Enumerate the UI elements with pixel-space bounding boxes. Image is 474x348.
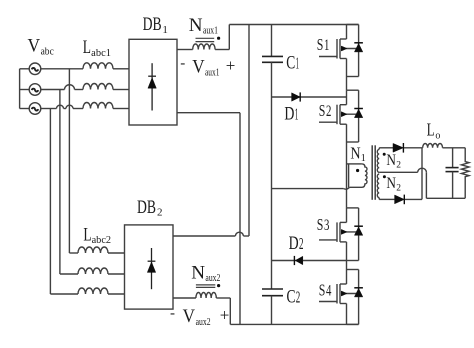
transistor S4 bbox=[319, 270, 359, 325]
svg-text:D: D bbox=[289, 233, 299, 254]
svg-text:V: V bbox=[183, 306, 196, 327]
svg-text:C: C bbox=[286, 52, 295, 73]
wire row-b2 bbox=[60, 273, 125, 275]
wire center tap bbox=[379, 171, 418, 173]
transistor S3 bbox=[319, 208, 359, 261]
capacitor C2 bbox=[262, 289, 283, 296]
inductor L_c2 bbox=[78, 288, 108, 294]
AC source Va bbox=[29, 63, 41, 75]
diode D1 bbox=[292, 92, 301, 101]
wire top rail bbox=[229, 24, 358, 26]
wire C1 top lead bbox=[271, 25, 273, 57]
wire C2 bottom lead bbox=[271, 296, 273, 325]
svg-text:1: 1 bbox=[295, 104, 299, 123]
AC source Vc bbox=[29, 103, 41, 115]
capacitor Co bbox=[446, 148, 459, 199]
svg-text:o: o bbox=[435, 131, 440, 142]
wire DB2+ right bbox=[173, 235, 249, 237]
label L_abc2 bbox=[83, 225, 111, 247]
wire Lo to load bbox=[443, 147, 466, 149]
wire D2 line bbox=[272, 260, 347, 262]
label N1 bbox=[350, 143, 365, 164]
svg-text:2: 2 bbox=[157, 207, 163, 219]
wire DB1- right bbox=[177, 112, 240, 114]
wire row-c2 bbox=[50, 293, 124, 295]
wire D1 line bbox=[272, 96, 347, 98]
svg-text:abc: abc bbox=[41, 47, 55, 58]
svg-text:abc1: abc1 bbox=[91, 48, 111, 59]
svg-text:3: 3 bbox=[324, 217, 329, 234]
svg-text:aux1: aux1 bbox=[203, 26, 218, 37]
diode symbol in DB2 bbox=[147, 248, 155, 289]
svg-text:N: N bbox=[191, 262, 205, 283]
svg-text:DB: DB bbox=[137, 197, 156, 218]
label S2 bbox=[319, 101, 332, 120]
inductor L_a2 bbox=[78, 247, 108, 253]
svg-text:S: S bbox=[317, 35, 324, 54]
svg-text:1: 1 bbox=[361, 153, 366, 164]
svg-text:-: - bbox=[180, 56, 185, 72]
inductor Lo bbox=[423, 144, 443, 148]
svg-text:aux2: aux2 bbox=[196, 317, 211, 328]
label C2 bbox=[287, 286, 301, 307]
svg-text:2: 2 bbox=[296, 287, 301, 306]
wire tap phase-c down bbox=[49, 109, 51, 295]
capacitor C1 bbox=[262, 56, 283, 62]
svg-text:N: N bbox=[189, 15, 203, 36]
wire DB1- down to bottom rail bbox=[239, 113, 241, 325]
svg-text:aux1: aux1 bbox=[205, 67, 220, 78]
svg-text:S: S bbox=[319, 281, 326, 300]
label D1 bbox=[284, 103, 298, 124]
polarity dot N2 bottom bbox=[383, 175, 386, 178]
label DB2 bbox=[137, 197, 163, 219]
label N_aux1 bbox=[189, 15, 218, 37]
svg-text:C: C bbox=[287, 286, 296, 307]
body diode S1 bbox=[354, 25, 363, 77]
wire S3-S4 link bbox=[346, 261, 348, 270]
inductor L_b2 bbox=[78, 268, 108, 274]
wire DB2+ up to top rail bbox=[248, 25, 250, 237]
label N_aux2 bbox=[191, 262, 220, 284]
body diode S2 bbox=[354, 90, 363, 142]
wire bottom diode up leg bbox=[421, 148, 423, 200]
polarity dot N_aux1 bbox=[217, 37, 220, 40]
svg-text:2: 2 bbox=[396, 161, 401, 171]
winding N1 primary bbox=[349, 164, 367, 187]
wire secondary top line bbox=[379, 147, 423, 149]
inductor L_b1 bbox=[83, 84, 113, 90]
svg-text:L: L bbox=[427, 120, 435, 140]
svg-text:1: 1 bbox=[296, 53, 299, 72]
svg-text:aux2: aux2 bbox=[205, 273, 220, 284]
label S1 bbox=[317, 35, 330, 54]
wire Naux2 to bottom rail bbox=[216, 298, 230, 324]
label DB1 bbox=[143, 14, 168, 36]
svg-text:-: - bbox=[170, 306, 175, 322]
label N2 bottom bbox=[386, 175, 401, 193]
inductor N_aux2 winding bbox=[196, 293, 216, 299]
wire hop phase-b over tap-a bbox=[65, 85, 75, 90]
label S3 bbox=[317, 215, 330, 234]
diode bridge DB1 box bbox=[129, 39, 177, 125]
body diode S3 bbox=[354, 208, 363, 261]
wire midpoint bus bbox=[271, 62, 273, 289]
core bars N_aux2 bbox=[196, 285, 215, 288]
svg-text:DB: DB bbox=[143, 14, 162, 35]
polarity dot N1 bbox=[356, 169, 359, 172]
wire hop center-tap over diode leg bbox=[418, 168, 427, 172]
wire left bus bbox=[20, 69, 30, 109]
AC source Vb bbox=[29, 84, 41, 96]
wire S2-S3 link bbox=[346, 142, 348, 208]
wire phase-b row bbox=[41, 89, 129, 91]
label S4 bbox=[319, 281, 332, 300]
label - V_aux1 + bbox=[180, 56, 235, 79]
polarity dot N_aux2 bbox=[217, 284, 220, 287]
wire row-a2 bbox=[69, 252, 124, 254]
svg-text:V: V bbox=[28, 35, 41, 56]
wire DB1+ to Naux1 bbox=[177, 49, 193, 51]
svg-text:+: + bbox=[220, 305, 230, 324]
inductor L_a1 bbox=[83, 63, 113, 69]
wire tap phase-b down bbox=[59, 90, 61, 275]
svg-text:S: S bbox=[319, 101, 326, 120]
core bars N_aux1 bbox=[196, 38, 215, 41]
body diode S4 bbox=[354, 270, 363, 325]
svg-text:2: 2 bbox=[396, 183, 401, 193]
svg-text:+: + bbox=[226, 56, 236, 75]
svg-text:L: L bbox=[83, 37, 91, 58]
wire bottom rail bbox=[230, 323, 358, 325]
svg-text:D: D bbox=[284, 103, 294, 124]
wire S1-S2 link bbox=[346, 77, 348, 91]
svg-text:N: N bbox=[350, 143, 360, 162]
inductor N_aux1 winding bbox=[193, 44, 215, 50]
label D2 bbox=[289, 233, 304, 254]
label Lo bbox=[427, 120, 441, 142]
resistor load R bbox=[461, 148, 469, 199]
wire phase-a row bbox=[41, 68, 129, 70]
transformer core bbox=[372, 145, 375, 200]
svg-text:2: 2 bbox=[326, 103, 331, 120]
svg-text:N: N bbox=[386, 152, 396, 169]
wire Naux1 to top rail bbox=[215, 25, 229, 50]
diode D2 bbox=[294, 256, 302, 265]
wire tap phase-a down bbox=[68, 69, 70, 253]
wire center tap down bbox=[426, 172, 465, 198]
winding N2 bottom bbox=[377, 174, 379, 199]
wire DB2- to Naux2 bbox=[173, 297, 196, 299]
svg-text:2: 2 bbox=[299, 234, 304, 253]
inductor L_c1 bbox=[83, 103, 113, 109]
wire hop phase-c over tap-b bbox=[57, 105, 64, 108]
label C1 bbox=[286, 52, 299, 73]
rectifier diode top bbox=[393, 143, 403, 153]
diode symbol in DB1 bbox=[148, 63, 156, 110]
label V_abc bbox=[28, 35, 55, 57]
winding N2 top bbox=[377, 148, 379, 173]
wire primary bottom lead bbox=[272, 187, 350, 189]
label - V_aux2 + bbox=[170, 305, 229, 328]
svg-text:V: V bbox=[192, 57, 205, 78]
wire phase-c row bbox=[41, 108, 129, 110]
wire secondary bottom line bbox=[379, 198, 422, 200]
svg-text:S: S bbox=[317, 215, 324, 234]
transistor S2 bbox=[319, 90, 359, 142]
svg-text:L: L bbox=[83, 225, 91, 246]
transistor S1 bbox=[319, 25, 359, 77]
polarity dot N2 top bbox=[383, 153, 386, 156]
wire hop phase-c over tap-a bbox=[66, 105, 73, 108]
svg-text:N: N bbox=[386, 175, 396, 192]
label L_abc1 bbox=[83, 37, 111, 59]
label N2 top bbox=[386, 152, 401, 170]
svg-text:4: 4 bbox=[326, 283, 331, 300]
svg-text:1: 1 bbox=[324, 37, 329, 54]
svg-text:abc2: abc2 bbox=[92, 235, 112, 246]
diode bridge DB2 box bbox=[125, 225, 174, 309]
svg-text:1: 1 bbox=[162, 24, 168, 36]
wire hop DB2+ over DB1- line bbox=[235, 232, 243, 236]
wire primary top lead bbox=[347, 163, 362, 165]
rectifier diode bottom bbox=[395, 195, 405, 205]
